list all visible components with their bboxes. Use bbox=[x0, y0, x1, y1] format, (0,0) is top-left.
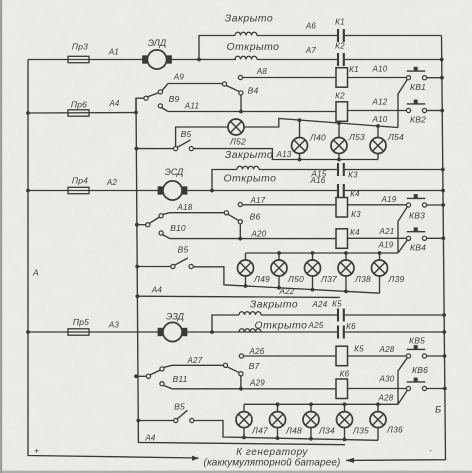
svg-text:А25: А25 bbox=[308, 321, 324, 330]
junction bbox=[443, 354, 447, 358]
svg-text:К2: К2 bbox=[335, 42, 345, 51]
contact K5 bbox=[338, 309, 344, 322]
wire lamp top rail A19 bbox=[246, 252, 399, 254]
svg-text:Л35: Л35 bbox=[352, 426, 369, 436]
relay K5 bbox=[336, 346, 348, 366]
svg-text:А18: А18 bbox=[177, 203, 193, 212]
switch В7 blade bbox=[227, 367, 239, 373]
switch terminal bbox=[238, 220, 242, 224]
svg-text:Л36: Л36 bbox=[386, 425, 403, 435]
wire A11 bbox=[162, 108, 242, 112]
motor ЭЗД bbox=[158, 322, 186, 341]
svg-text:Л34: Л34 bbox=[318, 426, 335, 436]
svg-text:В6: В6 bbox=[250, 212, 261, 222]
svg-text:К5: К5 bbox=[354, 345, 364, 354]
junction bbox=[343, 438, 347, 442]
lamp Л35 bbox=[337, 412, 353, 428]
wire КВ1 blade + riser bbox=[398, 80, 407, 128]
wire A9 bbox=[162, 84, 222, 91]
wire riser to Закрыто coil bbox=[212, 315, 239, 332]
svg-text:ЭСД: ЭСД bbox=[165, 167, 184, 177]
svg-text:К5: К5 bbox=[332, 300, 342, 309]
limit switch КВ4 bbox=[406, 227, 426, 240]
svg-text:А4: А4 bbox=[108, 99, 120, 108]
svg-text:К3: К3 bbox=[351, 210, 361, 219]
wire A24 to contact K5 bbox=[261, 314, 338, 316]
svg-text:А19: А19 bbox=[381, 195, 397, 204]
wire bbox=[310, 404, 312, 411]
wire A12 to КВ2 bbox=[348, 110, 407, 112]
junction bbox=[378, 251, 382, 255]
switch terminal bbox=[146, 223, 150, 227]
wire A22 lamp bottom rail bbox=[193, 267, 379, 293]
wire bbox=[377, 126, 379, 138]
contact K2 bbox=[338, 53, 344, 66]
lamp Л49 bbox=[238, 260, 254, 276]
wire bbox=[427, 237, 444, 239]
switch terminal bbox=[159, 214, 163, 218]
switch В10 bbox=[135, 223, 139, 227]
wire A20 bbox=[163, 235, 241, 239]
wire bbox=[312, 253, 314, 260]
relay K1 bbox=[336, 68, 348, 88]
svg-text:А17: А17 bbox=[250, 196, 266, 205]
lamp Л54 bbox=[370, 138, 386, 154]
junction bbox=[309, 437, 313, 441]
junction bbox=[441, 189, 445, 193]
svg-text:Л53: Л53 bbox=[348, 132, 365, 142]
lamp Л53 bbox=[331, 138, 347, 154]
svg-text:А28: А28 bbox=[379, 345, 395, 354]
svg-text:А4: А4 bbox=[151, 286, 163, 295]
svg-text:В10: В10 bbox=[170, 223, 186, 233]
svg-text:А19: А19 bbox=[378, 241, 394, 250]
limit switch КВ1 bbox=[406, 67, 426, 80]
svg-text:Б: Б bbox=[435, 405, 441, 416]
paper noise bbox=[0, 0, 1, 1]
lamp Л39 bbox=[372, 260, 388, 276]
switch terminal bbox=[158, 90, 162, 94]
node A17 terminal bbox=[238, 202, 242, 206]
switch terminal bbox=[160, 367, 164, 371]
wire A10 to КВ1 bbox=[348, 77, 407, 79]
relay K3 bbox=[336, 198, 348, 218]
junction bbox=[277, 286, 281, 290]
svg-text:В5: В5 bbox=[178, 245, 189, 255]
coil Открыто (К2 select) bbox=[235, 56, 257, 59]
switch terminal bbox=[222, 82, 226, 86]
svg-text:А16: А16 bbox=[310, 176, 326, 185]
svg-text:+: + bbox=[34, 446, 39, 456]
svg-text:А2: А2 bbox=[106, 178, 118, 187]
switch terminal bbox=[158, 104, 162, 108]
switch terminal bbox=[159, 231, 163, 235]
wire A15 to contact K3 bbox=[259, 169, 338, 171]
lamp Л40 bbox=[292, 138, 308, 154]
wire bbox=[299, 154, 301, 160]
wire A26 to relay K5 bbox=[244, 355, 337, 357]
switch terminal bbox=[190, 418, 194, 422]
svg-text:А21: А21 bbox=[379, 227, 395, 236]
wire A21 to КВ4 bbox=[348, 237, 407, 239]
svg-text:Л47: Л47 bbox=[251, 426, 268, 436]
wire bbox=[344, 331, 445, 333]
switch terminal bbox=[239, 372, 243, 376]
wire bbox=[136, 224, 146, 226]
switch В4 blade bbox=[226, 86, 239, 92]
wire bbox=[344, 169, 443, 171]
wire motor to contact K4 bbox=[188, 190, 339, 192]
fuse Пр5 bbox=[26, 330, 30, 334]
wire motor to contact K6 bbox=[188, 331, 339, 333]
junction bbox=[344, 290, 348, 294]
wire riser В4 to A11 bbox=[240, 95, 242, 112]
svg-text:А: А bbox=[32, 268, 39, 278]
wire bbox=[377, 404, 379, 411]
wire bbox=[245, 253, 247, 260]
wire bbox=[427, 77, 442, 79]
svg-text:КВ2: КВ2 bbox=[410, 115, 426, 125]
relay K4 bbox=[336, 229, 348, 249]
svg-text:А12: А12 bbox=[372, 98, 388, 107]
wire bbox=[338, 123, 340, 137]
wire bbox=[138, 420, 173, 422]
svg-text:Л38: Л38 bbox=[354, 274, 371, 284]
contact K1 bbox=[338, 29, 344, 42]
coil Открыто (К6 select) bbox=[239, 329, 261, 332]
contact K6 bbox=[338, 326, 344, 339]
left bus A bbox=[28, 60, 199, 459]
svg-text:В11: В11 bbox=[172, 374, 187, 384]
node A26 terminal bbox=[239, 354, 243, 358]
svg-text:КВ3: КВ3 bbox=[409, 211, 425, 221]
lamp Л34 bbox=[303, 412, 319, 428]
svg-text:К6: К6 bbox=[340, 370, 350, 379]
wire bbox=[240, 238, 336, 240]
wire A6 to contact K1 bbox=[257, 35, 338, 37]
junction bbox=[210, 189, 214, 193]
switch terminal bbox=[239, 91, 243, 95]
wire bbox=[344, 428, 346, 440]
svg-text:К генератору: К генератору bbox=[236, 447, 308, 458]
lamp Л52 bbox=[228, 119, 244, 135]
wire Л52 feed riser from В5 bbox=[176, 127, 228, 147]
wire bbox=[28, 112, 136, 115]
svg-text:А11: А11 bbox=[184, 102, 199, 111]
svg-text:Л48: Л48 bbox=[285, 426, 302, 436]
svg-text:Пр5: Пр5 bbox=[73, 317, 89, 327]
svg-text:Л37: Л37 bbox=[320, 274, 337, 284]
svg-text:Л40: Л40 bbox=[309, 133, 326, 143]
coil Закрыто (К1 select) bbox=[235, 32, 257, 35]
svg-text:К4: К4 bbox=[350, 228, 360, 237]
junction bbox=[277, 251, 281, 255]
lamp Л47 bbox=[236, 412, 252, 428]
switch terminal bbox=[144, 96, 148, 100]
wire bbox=[177, 140, 190, 147]
wire bbox=[379, 276, 381, 293]
limit switch КВ3 bbox=[406, 194, 426, 207]
switch В6 blade bbox=[228, 214, 239, 220]
coil Закрыто (К5 select) bbox=[239, 312, 261, 315]
svg-text:А27: А27 bbox=[187, 356, 203, 365]
junction bbox=[376, 124, 380, 128]
wire bbox=[245, 276, 247, 286]
wire lamp bottom rail bbox=[194, 421, 378, 441]
wire КВ4 blade bbox=[398, 240, 407, 253]
wire A19 to КВ3 bbox=[348, 204, 407, 206]
wire bbox=[278, 276, 280, 288]
junction bbox=[343, 402, 347, 406]
svg-text:Л39: Л39 bbox=[388, 274, 405, 284]
wire КВ6 blade bbox=[398, 390, 407, 404]
switch terminal bbox=[174, 147, 178, 151]
junction bbox=[276, 402, 280, 406]
wire bbox=[344, 314, 444, 316]
wire bbox=[136, 266, 171, 268]
contact K3 bbox=[338, 163, 344, 176]
svg-text:Л54: Л54 bbox=[387, 132, 404, 142]
motor ЭСД bbox=[158, 181, 186, 200]
wire bbox=[28, 190, 159, 192]
svg-text:ЭЛД: ЭЛД bbox=[148, 38, 167, 48]
wire bbox=[241, 388, 336, 390]
wire bbox=[345, 276, 347, 291]
junction bbox=[442, 330, 446, 334]
svg-text:Пр3: Пр3 bbox=[72, 42, 88, 52]
switch В5 (section 2) bbox=[135, 265, 139, 269]
wire contact K1 to bus bbox=[344, 35, 442, 37]
relay K2 bbox=[336, 102, 348, 122]
limit switch КВ6 bbox=[406, 378, 426, 391]
svg-text:В9: В9 bbox=[169, 94, 180, 104]
junction bbox=[311, 288, 315, 292]
wire bbox=[243, 428, 245, 438]
relay K6 bbox=[336, 379, 348, 399]
junction bbox=[442, 236, 446, 240]
svg-text:А1: А1 bbox=[108, 48, 119, 57]
svg-text:А13: А13 bbox=[276, 150, 292, 159]
wire bbox=[344, 404, 346, 411]
svg-text:Л50: Л50 bbox=[287, 274, 304, 284]
wire: bottom right arrowhead bbox=[346, 458, 354, 463]
svg-text:Открыто: Открыто bbox=[255, 321, 308, 332]
junction bbox=[442, 313, 446, 317]
svg-text:К6: К6 bbox=[346, 322, 356, 331]
junction bbox=[238, 237, 242, 241]
junction bbox=[210, 330, 214, 334]
svg-text:А20: А20 bbox=[251, 230, 267, 239]
switch terminal bbox=[160, 382, 164, 386]
wire bbox=[427, 110, 443, 112]
switch terminal bbox=[174, 418, 178, 422]
wire bbox=[344, 190, 443, 192]
svg-text:А22: А22 bbox=[279, 287, 295, 296]
fuse Пр3 bbox=[28, 59, 146, 61]
wire bbox=[136, 375, 146, 377]
svg-text:Закрыто: Закрыто bbox=[225, 150, 273, 161]
svg-text:А10: А10 bbox=[372, 115, 388, 124]
wire bbox=[150, 217, 160, 223]
wire motor to junction bbox=[172, 59, 236, 61]
junction bbox=[134, 111, 138, 115]
wire riser to closed-coil row bbox=[199, 36, 235, 60]
svg-text:А4: А4 bbox=[144, 434, 156, 443]
junction bbox=[239, 387, 243, 391]
wire bbox=[338, 154, 340, 160]
svg-text:Закрыто: Закрыто bbox=[225, 14, 273, 25]
wire riser to Открыто coil bbox=[212, 170, 237, 191]
junction bbox=[337, 158, 341, 162]
coil Открыто (К3 select) bbox=[237, 166, 259, 169]
wire bbox=[148, 93, 159, 97]
lamp Л37 bbox=[305, 260, 321, 276]
svg-text:Пр4: Пр4 bbox=[72, 176, 88, 186]
wire A28 to КВ5 bbox=[348, 355, 407, 357]
junction bbox=[244, 284, 248, 288]
svg-text:А9: А9 bbox=[173, 73, 185, 82]
svg-text:А8: А8 bbox=[256, 67, 268, 76]
wire contact K2 to bus bbox=[344, 59, 442, 61]
wire A17 to relay K3 bbox=[242, 204, 336, 206]
svg-text:В7: В7 bbox=[249, 361, 260, 371]
svg-text:В4: В4 bbox=[248, 86, 259, 96]
junction bbox=[440, 76, 444, 80]
switch В9 bbox=[136, 98, 144, 112]
switch В5 (section 3) bbox=[136, 419, 140, 423]
junction bbox=[311, 251, 315, 255]
svg-text:А28: А28 bbox=[378, 394, 394, 403]
wire riser В7 to A29 bbox=[240, 376, 242, 389]
fuse Пр6 bbox=[26, 111, 30, 115]
svg-text:А10: А10 bbox=[372, 65, 388, 74]
wire bbox=[177, 410, 187, 419]
wire bbox=[136, 148, 174, 150]
wire bbox=[175, 258, 188, 265]
junction bbox=[298, 118, 302, 122]
wire lamp top rail A28 bbox=[244, 403, 398, 405]
fuse Пр4 bbox=[26, 189, 30, 193]
wire bbox=[310, 428, 312, 439]
junction bbox=[276, 436, 280, 440]
wire bbox=[28, 331, 159, 333]
wire bbox=[137, 296, 340, 297]
wire bbox=[277, 428, 279, 439]
A4 control bus bbox=[136, 98, 345, 445]
junction bbox=[440, 109, 444, 113]
wire: bottom left arrowhead bbox=[192, 456, 199, 461]
junction bbox=[443, 387, 447, 391]
svg-text:А24: А24 bbox=[312, 300, 328, 309]
lamp Л50 bbox=[271, 260, 287, 276]
wire A30 to КВ6 bbox=[348, 388, 407, 390]
junction bbox=[136, 294, 140, 298]
limit switch КВ2 bbox=[406, 100, 426, 113]
limit switch КВ5 bbox=[406, 345, 426, 358]
junction bbox=[344, 251, 348, 255]
svg-text:КВ4: КВ4 bbox=[410, 243, 426, 253]
svg-text:А7: А7 bbox=[305, 46, 317, 55]
svg-text:Открыто: Открыто bbox=[227, 42, 280, 53]
contact K4 bbox=[338, 184, 344, 197]
wire A11 to relay K2 bbox=[241, 111, 336, 113]
lamp Л36 bbox=[370, 412, 386, 428]
svg-text:ЭЗД: ЭЗД bbox=[166, 312, 184, 322]
wire riser В6 to A20 bbox=[239, 224, 241, 239]
svg-text:В5: В5 bbox=[174, 402, 185, 412]
switch terminal bbox=[171, 264, 175, 268]
svg-text:К1: К1 bbox=[335, 18, 345, 27]
wire bbox=[278, 253, 280, 260]
switch terminal bbox=[189, 147, 193, 151]
svg-text:В5: В5 bbox=[181, 129, 192, 139]
node junction bbox=[197, 58, 201, 62]
switch В5 (section 1) bbox=[135, 147, 139, 151]
motor ЭЛД bbox=[143, 50, 171, 69]
wire A7 to contact K2 bbox=[257, 59, 338, 61]
svg-text:Л52: Л52 bbox=[229, 137, 246, 147]
svg-text:(каккумуляторной батарее): (каккумуляторной батарее) bbox=[204, 457, 341, 469]
svg-text:А3: А3 bbox=[108, 321, 120, 330]
wire bbox=[277, 404, 279, 411]
svg-text:-: - bbox=[429, 445, 432, 455]
wire КВ3 blade + riser bbox=[398, 207, 407, 253]
switch terminal bbox=[224, 211, 228, 215]
svg-text:КВ5: КВ5 bbox=[409, 336, 425, 346]
svg-text:К3: К3 bbox=[348, 171, 358, 180]
svg-text:Закрыто: Закрыто bbox=[250, 300, 298, 311]
svg-text:Открыто: Открыто bbox=[224, 174, 277, 185]
node A8 terminal bbox=[238, 75, 242, 79]
switch terminal bbox=[146, 374, 150, 378]
svg-text:А26: А26 bbox=[249, 347, 265, 356]
wire bbox=[150, 370, 160, 375]
wire bbox=[427, 388, 445, 390]
wire bbox=[345, 253, 347, 260]
svg-text:А29: А29 bbox=[249, 379, 265, 388]
junction bbox=[239, 110, 243, 114]
svg-text:А30: А30 bbox=[379, 375, 395, 384]
svg-text:Л49: Л49 bbox=[253, 274, 270, 284]
wire bbox=[377, 154, 379, 160]
svg-text:А6: А6 bbox=[305, 22, 317, 31]
right bus B bbox=[346, 36, 446, 461]
switch В11 bbox=[134, 374, 138, 378]
wire A13 Закрыто row bbox=[193, 149, 378, 160]
junction bbox=[337, 121, 341, 125]
switch terminal bbox=[223, 363, 227, 367]
wire A8 to relay K1 bbox=[243, 77, 336, 79]
junction bbox=[242, 436, 246, 440]
wire bbox=[312, 276, 314, 290]
lamp Л38 bbox=[338, 260, 354, 276]
wire bbox=[299, 120, 301, 137]
wire Л52 to lamp top rail bbox=[244, 119, 398, 128]
junction bbox=[309, 402, 313, 406]
wire КВ5 blade + riser bbox=[398, 358, 407, 405]
wire A18 bbox=[163, 213, 225, 215]
junction bbox=[376, 402, 380, 406]
wire bbox=[243, 404, 245, 411]
wire A29 bbox=[164, 385, 241, 388]
junction bbox=[441, 168, 445, 172]
wire bbox=[427, 204, 444, 206]
scan edge artifacts bbox=[0, 0, 2, 473]
switch terminal bbox=[189, 264, 193, 268]
lamp Л48 bbox=[270, 412, 286, 428]
svg-text:Пр6: Пр6 bbox=[71, 100, 87, 110]
svg-text:К2: К2 bbox=[335, 92, 345, 101]
